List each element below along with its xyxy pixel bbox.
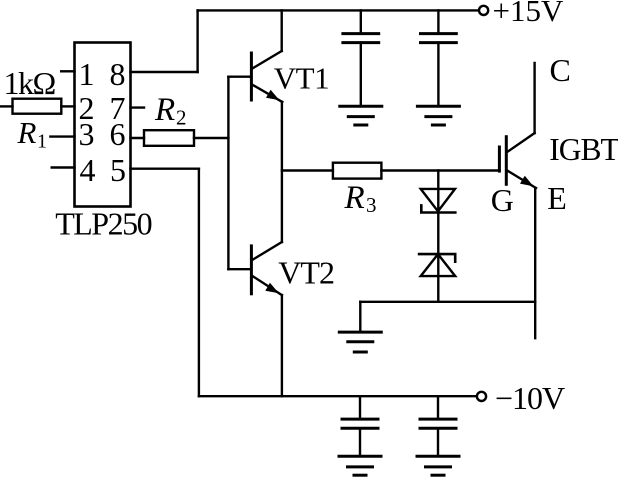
svg-text:R: R [17,115,37,150]
wire pin5 horizontal [131,167,199,169]
svg-text:3: 3 [79,116,95,152]
IC U1 TLP250 box [75,43,131,207]
IGBT V1 emitter diagonal [507,170,536,188]
capacitor C1 bottom lead [360,43,362,106]
wire pin5 vertical down [198,169,200,397]
ground under C4 [417,455,459,458]
capacitor C4 top lead [437,396,439,419]
svg-text:R: R [154,92,175,128]
svg-text:IGBT: IGBT [549,132,618,167]
resistor R1 body [13,99,62,114]
wire R1 to pin2 [61,105,74,107]
svg-text:C: C [550,52,571,88]
svg-text:TLP250: TLP250 [55,206,151,242]
capacitor C3 top lead [359,396,361,419]
terminal -10V circle [477,392,486,401]
wire IGBT emitter vertical [534,188,536,338]
svg-text:G: G [491,182,514,218]
wire bottom -10V rail [199,395,477,397]
capacitor C1 plates [343,32,379,35]
transistor Q2 VT2 emitter arrow [265,283,279,294]
svg-text:8: 8 [110,56,126,92]
wire pin4 stub [52,166,75,168]
wire R1 left lead [0,105,13,107]
ground under C3 [339,455,381,458]
capacitor C2 top lead [437,10,439,33]
wire base rail vertical [227,77,229,270]
svg-text:6: 6 [110,116,126,152]
zener diode VS2 triangle [421,254,456,276]
transistor Q2 VT2 emitter diagonal [252,276,282,295]
ground middle [339,331,381,334]
wire VT1 emitter to VT2 collector [281,102,283,242]
svg-text:3: 3 [366,193,377,217]
wire pin7 stub [131,106,145,108]
svg-text:1: 1 [37,131,47,153]
svg-text:1: 1 [79,56,95,92]
wire VT1 collector vertical [281,10,283,51]
svg-text:E: E [547,180,567,216]
capacitor C2 bottom lead [437,43,439,106]
zener diode VS2 cathode bar with hook [419,254,455,262]
wire emitter bottom horizontal [360,301,535,303]
wire top +15V rail [198,9,479,11]
svg-text:+15V: +15V [493,0,564,28]
transistor Q2 VT2 base bar [250,246,253,294]
svg-text:2: 2 [176,106,187,130]
svg-text:5: 5 [110,152,126,188]
wire pin1 stub [61,70,74,72]
resistor R2 body [144,130,194,146]
zener diode VS1 triangle [421,189,455,211]
svg-text:R: R [344,180,365,216]
svg-text:VT2: VT2 [278,255,334,291]
transistor Q1 VT1 collector diagonal [252,51,282,69]
capacitor C3 bottom lead [359,428,361,456]
wire VT2 base [228,268,251,270]
svg-text:1kΩ: 1kΩ [4,65,56,101]
capacitor C1 top lead [360,10,362,33]
ground under C1 [340,105,382,108]
IGBT V1 channel bar [505,137,508,185]
wire IGBT collector vertical [533,63,535,133]
capacitor C2 plates [421,32,457,35]
wire pin8 horizontal [131,71,198,73]
capacitor C4 plates [420,418,456,421]
IGBT V1 emitter arrow [520,176,534,187]
wire pin6 to R2 [131,137,145,139]
wire R3 to IGBT gate [381,169,499,171]
svg-text:−10V: −10V [495,380,565,416]
transistor Q1 VT1 emitter diagonal [252,85,282,103]
svg-text:4: 4 [80,152,96,188]
capacitor C4 bottom lead [437,428,439,456]
wire pin8 vertical to rail [196,10,198,72]
capacitor C3 plates [342,418,378,421]
wire VT1 base [228,75,251,77]
transistor Q1 VT1 emitter arrow [266,90,280,101]
wire pin3 stub [50,135,74,137]
resistor R3 body [333,163,382,179]
wire R2 to base rail [194,137,228,139]
wire zener column vertical [437,171,439,302]
wire emitter junction to R3 [282,169,333,171]
transistor Q1 VT1 base bar [250,53,253,100]
ground under C2 [417,105,459,108]
IGBT V1 collector diagonal [507,133,535,152]
zener diode VS1 cathode bar with hook [421,205,455,212]
terminal +15V circle [479,6,488,15]
transistor Q2 VT2 collector diagonal [252,242,282,260]
wire VT2 emitter vertical [281,295,283,396]
IGBT V1 gate bar [498,147,501,171]
wire ground drop [359,302,361,332]
svg-text:VT1: VT1 [274,61,329,96]
